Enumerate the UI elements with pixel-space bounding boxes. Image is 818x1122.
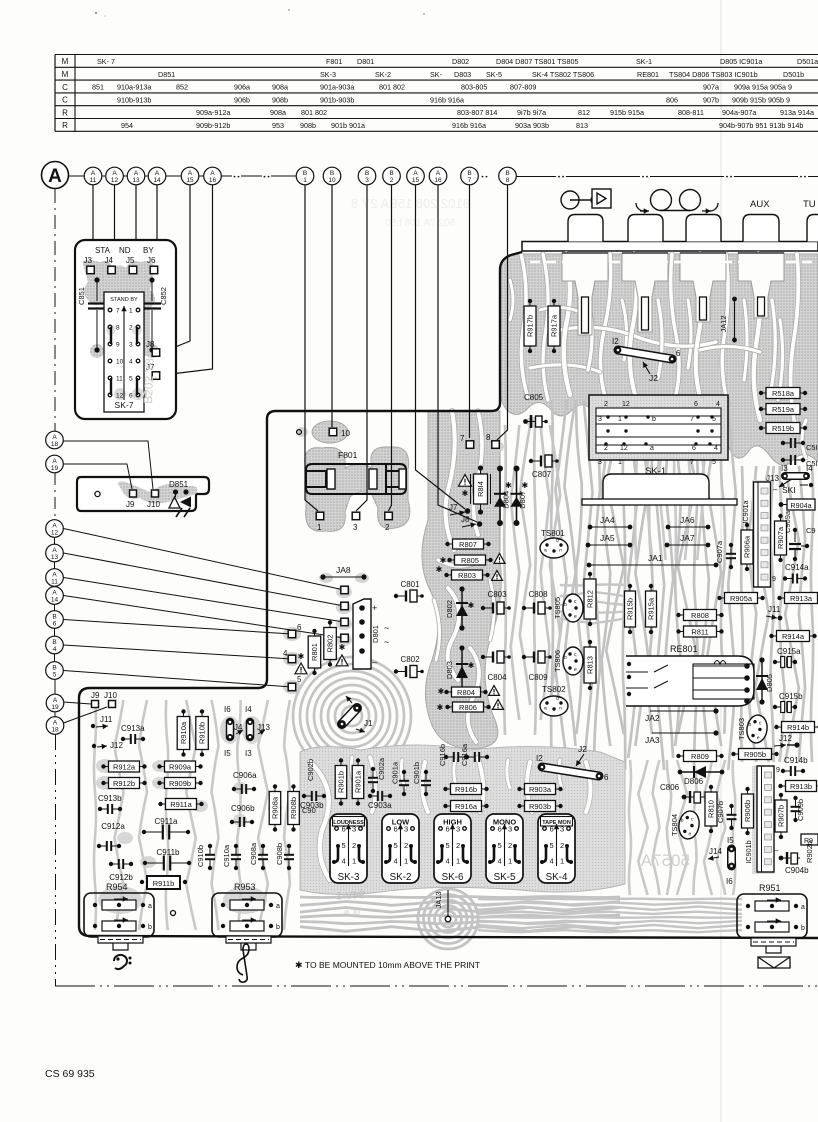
svg-text:5: 5 xyxy=(550,841,554,850)
svg-text:R903b: R903b xyxy=(529,802,551,811)
jumper J2 upper xyxy=(612,337,681,383)
key tab 4 xyxy=(743,215,779,242)
switch SK-1 xyxy=(582,395,737,505)
parts-location table xyxy=(55,55,818,132)
svg-text:SK-1: SK-1 xyxy=(636,57,652,66)
svg-text:J11: J11 xyxy=(100,715,113,724)
svg-text:19: 19 xyxy=(51,704,59,711)
svg-text:913a 914a: 913a 914a xyxy=(780,108,814,117)
capacitor C910a xyxy=(222,844,241,870)
node A14 wire xyxy=(46,587,344,638)
pad J4 arrow xyxy=(234,723,243,735)
svg-text:R901b: R901b xyxy=(337,771,346,793)
svg-text:C9: C9 xyxy=(806,526,816,535)
svg-text:A: A xyxy=(53,719,58,726)
pad J11 right xyxy=(766,605,782,620)
svg-text:14: 14 xyxy=(51,596,59,603)
capacitor C903a xyxy=(368,791,392,810)
svg-text:SK-3: SK-3 xyxy=(320,70,336,79)
diode D805 xyxy=(756,657,774,704)
svg-text:J7: J7 xyxy=(449,503,458,512)
index wires xyxy=(93,185,508,522)
svg-text:M: M xyxy=(62,57,69,66)
svg-text:C911b: C911b xyxy=(157,848,181,857)
diode D807 xyxy=(511,466,529,527)
svg-text:R808: R808 xyxy=(691,611,709,620)
net JA6 xyxy=(666,515,711,529)
svg-text:806: 806 xyxy=(666,95,678,104)
svg-text:D801: D801 xyxy=(371,625,380,643)
svg-text:R810: R810 xyxy=(707,800,716,818)
resistor R806 xyxy=(437,700,504,713)
connector I4-I3 xyxy=(245,705,253,758)
pad hole F xyxy=(297,430,302,435)
svg-text:14: 14 xyxy=(153,177,161,184)
svg-text:18: 18 xyxy=(51,441,59,448)
connector finger xyxy=(562,253,608,335)
diode D804 xyxy=(494,466,512,527)
svg-text:B: B xyxy=(303,170,307,177)
svg-text:CS 69 935: CS 69 935 xyxy=(45,1068,95,1080)
svg-text:A: A xyxy=(210,170,215,177)
resistor R907a xyxy=(775,514,787,562)
svg-text:✱: ✱ xyxy=(295,960,303,970)
svg-text:R804: R804 xyxy=(457,688,475,697)
traces mid right xyxy=(504,400,813,770)
svg-text:R907b: R907b xyxy=(777,805,786,827)
svg-text:IC901a: IC901a xyxy=(741,500,750,523)
svg-text:9: 9 xyxy=(116,342,120,349)
svg-text:R813: R813 xyxy=(586,656,595,674)
svg-text:D501a: D501a xyxy=(797,57,818,66)
svg-text:909b-912b: 909b-912b xyxy=(196,121,230,130)
connector tab R954 xyxy=(98,936,143,950)
copper pour top right xyxy=(500,254,818,465)
svg-text:4: 4 xyxy=(283,649,288,658)
svg-text:C808: C808 xyxy=(528,590,548,599)
svg-text:5: 5 xyxy=(53,671,57,678)
svg-text:4: 4 xyxy=(342,857,346,866)
svg-text:✱: ✱ xyxy=(436,565,443,574)
svg-text:C903a: C903a xyxy=(368,801,392,810)
svg-text:D802: D802 xyxy=(452,57,469,66)
svg-text:6: 6 xyxy=(676,349,681,358)
svg-text:J2: J2 xyxy=(578,744,587,754)
svg-text:C902b: C902b xyxy=(306,759,315,781)
svg-text:7: 7 xyxy=(690,459,694,466)
switch SK-7 block xyxy=(75,240,176,419)
svg-text:D804: D804 xyxy=(502,491,511,509)
capacitor C906b xyxy=(230,804,255,827)
svg-text:J4: J4 xyxy=(105,256,114,265)
svg-text:C807: C807 xyxy=(532,470,552,479)
svg-text:R953: R953 xyxy=(234,882,256,892)
svg-text:JA1: JA1 xyxy=(648,553,663,563)
svg-text:D805 IC901a: D805 IC901a xyxy=(720,57,762,66)
node B1 xyxy=(296,167,314,185)
svg-text:TS801: TS801 xyxy=(541,529,565,538)
svg-text:J8: J8 xyxy=(461,515,470,524)
svg-text:J5: J5 xyxy=(126,256,135,265)
net JA1 xyxy=(587,553,719,567)
net JA2 xyxy=(645,708,719,723)
resistor R90x cut xyxy=(801,834,818,845)
svg-text:5: 5 xyxy=(712,459,716,466)
svg-text:C902a: C902a xyxy=(377,757,386,780)
capacitor C809 xyxy=(522,651,552,682)
capacitor C915a xyxy=(773,647,801,668)
resistor R810 xyxy=(705,785,717,833)
svg-text:I2: I2 xyxy=(536,754,543,763)
svg-text:903a 903b: 903a 903b xyxy=(515,121,549,130)
node A14 xyxy=(148,167,166,185)
svg-text:5: 5 xyxy=(498,841,502,850)
svg-text:4: 4 xyxy=(550,857,554,866)
capacitor C909a xyxy=(783,510,816,561)
board outline xyxy=(79,252,818,938)
resistor R901a xyxy=(352,758,364,805)
svg-text:J3: J3 xyxy=(84,256,93,265)
resistor R915b xyxy=(625,584,636,634)
rectifier D801 xyxy=(353,599,389,669)
svg-text:3: 3 xyxy=(404,825,408,834)
svg-text:3: 3 xyxy=(352,825,356,834)
resistor R914a xyxy=(769,631,816,642)
svg-text:801 802: 801 802 xyxy=(301,108,327,117)
capacitor C805 xyxy=(523,393,548,428)
svg-text:B: B xyxy=(467,170,471,177)
svg-text:J1: J1 xyxy=(364,719,373,728)
svg-text:✱: ✱ xyxy=(437,703,444,712)
svg-text:C804: C804 xyxy=(487,673,507,682)
node B6 wire xyxy=(46,611,292,634)
svg-text:A: A xyxy=(134,170,139,177)
svg-text:4: 4 xyxy=(714,445,718,452)
svg-text:R811: R811 xyxy=(691,627,708,636)
svg-text:R906a: R906a xyxy=(743,535,752,558)
svg-text:R518a: R518a xyxy=(772,389,795,398)
resistor R801 xyxy=(308,629,321,675)
svg-text:TO BE MOUNTED 10mm ABOVE: TO BE MOUNTED 10mm ABOVE THE PRINT xyxy=(305,960,480,970)
connector tab R953 xyxy=(226,936,271,950)
capacitor C518b xyxy=(781,455,818,468)
net JA12 xyxy=(719,297,737,343)
capacitor C802 xyxy=(394,655,424,678)
resistor R909b xyxy=(157,778,202,789)
svg-text:5057A: 5057A xyxy=(640,851,690,870)
svg-text:1: 1 xyxy=(303,177,307,184)
svg-text:R805: R805 xyxy=(461,556,479,565)
svg-text:+: + xyxy=(372,603,377,613)
svg-text:M: M xyxy=(62,70,69,79)
svg-text:C915a: C915a xyxy=(777,647,801,656)
svg-text:5: 5 xyxy=(446,841,450,850)
svg-text:7: 7 xyxy=(468,177,472,184)
svg-text:✱: ✱ xyxy=(298,652,305,661)
connector finger xyxy=(738,253,784,318)
svg-text:5: 5 xyxy=(394,841,398,850)
svg-text:RE801: RE801 xyxy=(670,644,698,654)
resistor R905a xyxy=(717,593,764,604)
svg-text:R915b: R915b xyxy=(626,598,635,620)
capacitor C911b xyxy=(143,848,191,871)
copper pour centre xyxy=(422,411,501,748)
svg-text:I5: I5 xyxy=(727,836,734,845)
svg-text:JA13: JA13 xyxy=(434,891,443,908)
svg-text:JA4: JA4 xyxy=(600,515,615,525)
connector finger xyxy=(622,253,668,332)
svg-text:19: 19 xyxy=(51,465,59,472)
svg-text:910a-913a: 910a-913a xyxy=(117,83,151,92)
svg-text:J11: J11 xyxy=(768,605,781,614)
svg-text:1: 1 xyxy=(404,857,408,866)
svg-text:803-807 814: 803-807 814 xyxy=(457,108,497,117)
svg-text:D851: D851 xyxy=(158,70,175,79)
svg-text:1: 1 xyxy=(352,857,356,866)
svg-text:R803: R803 xyxy=(458,571,476,580)
svg-text:A: A xyxy=(48,166,62,187)
svg-text:813: 813 xyxy=(576,121,588,130)
resistor R911b xyxy=(140,876,187,889)
svg-text:A: A xyxy=(52,434,57,441)
resistor R910a xyxy=(177,709,190,756)
resistor R914b xyxy=(774,722,818,733)
svg-text:b: b xyxy=(564,602,567,608)
switch SK-6 xyxy=(434,814,471,883)
svg-text:6: 6 xyxy=(498,825,502,834)
svg-text:a: a xyxy=(650,445,654,452)
svg-text:D501b: D501b xyxy=(783,70,804,79)
key tab 2 xyxy=(628,215,663,242)
svg-text:–: – xyxy=(774,846,779,855)
svg-text:R910b: R910b xyxy=(198,722,207,744)
svg-text:3: 3 xyxy=(560,825,564,834)
pad J5 xyxy=(126,256,137,274)
svg-text:13: 13 xyxy=(51,554,59,561)
svg-text:A: A xyxy=(413,170,418,177)
svg-text:12: 12 xyxy=(51,529,59,536)
capacitor C851 xyxy=(77,277,106,352)
svg-text:12: 12 xyxy=(622,401,630,408)
net JA3 xyxy=(645,730,719,745)
node B3 xyxy=(358,167,376,185)
svg-text:R906b: R906b xyxy=(743,800,752,822)
svg-text:502 7A 108 b50: 502 7A 108 b50 xyxy=(384,218,455,229)
svg-text:J14: J14 xyxy=(709,847,722,856)
svg-text:6: 6 xyxy=(342,825,346,834)
svg-text:A: A xyxy=(91,170,96,177)
paper specks xyxy=(95,12,97,14)
svg-text:STA: STA xyxy=(95,246,111,255)
svg-text:C913b: C913b xyxy=(98,794,122,803)
svg-text:R913b: R913b xyxy=(790,782,812,791)
treble clef xyxy=(237,944,249,982)
svg-text:–: – xyxy=(773,485,778,494)
svg-text:6: 6 xyxy=(694,401,698,408)
svg-text:C805: C805 xyxy=(524,393,544,402)
node A16 xyxy=(429,167,447,185)
net JA7 xyxy=(665,533,711,547)
speaker icon xyxy=(758,957,790,968)
dashed clearance line xyxy=(530,261,818,264)
svg-text:9i7b 9i7a: 9i7b 9i7a xyxy=(517,108,546,117)
pad J9 xyxy=(126,490,137,509)
svg-text:a: a xyxy=(276,903,280,910)
svg-text:C907b: C907b xyxy=(716,801,725,823)
svg-text:10: 10 xyxy=(116,359,124,366)
svg-text:R812: R812 xyxy=(586,590,595,608)
capacitor C518a xyxy=(781,438,818,452)
capacitor C807 xyxy=(529,455,559,479)
pad 1 xyxy=(316,512,324,532)
svg-text:SK-4 TS802 TS806: SK-4 TS802 TS806 xyxy=(532,70,594,79)
svg-text:✱: ✱ xyxy=(468,661,475,670)
svg-text:JA12: JA12 xyxy=(719,315,728,332)
resistor R804 xyxy=(438,686,500,698)
svg-text:6: 6 xyxy=(129,393,133,400)
svg-text:3: 3 xyxy=(508,825,512,834)
svg-text:1: 1 xyxy=(317,523,322,532)
svg-text:A: A xyxy=(188,170,193,177)
pads 13 14 SK1 xyxy=(766,464,813,495)
jumper J2 lower xyxy=(536,744,609,782)
transistor TS802 xyxy=(540,685,568,716)
svg-text:R954: R954 xyxy=(106,882,128,892)
svg-text:R: R xyxy=(62,121,68,130)
svg-text:A: A xyxy=(52,571,57,578)
node A11 xyxy=(84,167,102,185)
svg-text:2: 2 xyxy=(560,841,564,850)
node B8 xyxy=(499,167,517,185)
svg-text:808-811: 808-811 xyxy=(678,108,704,117)
net JA5 xyxy=(586,533,633,547)
svg-text:910b-913b: 910b-913b xyxy=(117,95,151,104)
pad 4 xyxy=(283,649,307,674)
svg-text:C912a: C912a xyxy=(101,822,125,831)
svg-text:D807: D807 xyxy=(518,491,527,509)
svg-text:4: 4 xyxy=(129,359,133,366)
svg-text:R807: R807 xyxy=(459,540,477,549)
crop line bottom xyxy=(55,985,818,987)
svg-text:7: 7 xyxy=(460,434,465,443)
edge-connector index circles xyxy=(69,175,818,178)
svg-text:a: a xyxy=(801,904,805,911)
edge bar xyxy=(522,242,818,252)
resistor R903a xyxy=(517,784,562,795)
svg-text:J2: J2 xyxy=(649,373,658,383)
svg-text:2: 2 xyxy=(604,445,608,452)
node A12 xyxy=(106,167,124,185)
svg-text:3: 3 xyxy=(365,177,369,184)
node B4 wire xyxy=(46,636,292,659)
svg-text:e: e xyxy=(574,667,577,673)
resistor R814 xyxy=(471,465,491,514)
svg-text:SK-2: SK-2 xyxy=(390,872,412,883)
key tab 1 xyxy=(568,215,603,242)
capacitor C852 xyxy=(143,277,168,352)
svg-text:C903b: C903b xyxy=(300,801,324,810)
svg-text:10: 10 xyxy=(328,177,336,184)
svg-text:2: 2 xyxy=(129,325,133,332)
svg-text:SK-2: SK-2 xyxy=(375,70,391,79)
svg-text:I2: I2 xyxy=(612,337,619,346)
svg-text:5: 5 xyxy=(342,841,346,850)
svg-text:R915a: R915a xyxy=(647,597,656,620)
svg-text:C913a: C913a xyxy=(121,724,145,733)
node B7 xyxy=(461,167,479,185)
svg-text:✱: ✱ xyxy=(339,643,346,652)
note mounting xyxy=(295,960,480,970)
svg-text:3: 3 xyxy=(598,459,602,466)
crop line left xyxy=(54,189,57,986)
chain segments xyxy=(54,537,57,716)
svg-text:D804 D807 TS801 TS805: D804 D807 TS801 TS805 xyxy=(496,57,578,66)
copper F801 xyxy=(305,447,410,532)
transistor TS803 xyxy=(737,714,769,745)
svg-text:5: 5 xyxy=(297,675,302,684)
svg-text:B: B xyxy=(330,170,334,177)
svg-text:SK-: SK- xyxy=(430,70,443,79)
pad J6 xyxy=(147,256,158,274)
indicator board xyxy=(77,477,209,511)
pad J10 xyxy=(147,490,160,509)
svg-text:D806: D806 xyxy=(684,777,704,786)
svg-text:TS804: TS804 xyxy=(670,814,679,836)
svg-text:901b-903b: 901b-903b xyxy=(320,95,354,104)
capacitor C904b xyxy=(774,846,809,875)
svg-text:R905a: R905a xyxy=(730,594,753,603)
resistor R903b xyxy=(517,801,562,812)
pad J14 xyxy=(708,847,722,861)
switch SK-4 xyxy=(538,814,575,883)
svg-text:ND: ND xyxy=(119,246,131,255)
svg-text:I6: I6 xyxy=(224,705,231,714)
svg-text:2: 2 xyxy=(352,841,356,850)
svg-text:C914b: C914b xyxy=(784,756,808,765)
svg-text:R911b: R911b xyxy=(153,879,175,888)
svg-text:A: A xyxy=(155,170,160,177)
node A16 xyxy=(204,167,222,185)
svg-text:C908b: C908b xyxy=(275,843,284,865)
svg-text:909a 915a 905a 9: 909a 915a 905a 9 xyxy=(734,83,792,92)
resistor R803 xyxy=(436,565,503,580)
svg-text:J10: J10 xyxy=(147,500,160,509)
traces bottom right xyxy=(478,408,742,932)
svg-text:b: b xyxy=(801,925,805,932)
svg-text:R908b: R908b xyxy=(289,797,298,819)
svg-text:11: 11 xyxy=(51,578,58,585)
resistor R917b xyxy=(524,299,536,353)
phono icon xyxy=(561,189,611,209)
node A18 wire xyxy=(46,431,153,489)
svg-text:901b 901a: 901b 901a xyxy=(331,121,365,130)
svg-text:909b 915b 905b 9: 909b 915b 905b 9 xyxy=(732,95,790,104)
svg-text:C5I: C5I xyxy=(806,443,818,452)
resistor R908b xyxy=(288,784,300,831)
svg-text:UL ®: UL ® xyxy=(343,909,360,917)
svg-text:SK-6: SK-6 xyxy=(442,872,464,883)
capacitor C907a xyxy=(715,540,736,569)
svg-text:R917a: R917a xyxy=(550,314,559,337)
svg-text:R806: R806 xyxy=(459,703,477,712)
resistor R909a xyxy=(157,761,202,772)
svg-text:R916a: R916a xyxy=(455,802,478,811)
capacitor C907b xyxy=(716,801,737,830)
resistor R916a xyxy=(443,801,488,812)
svg-text:JA3: JA3 xyxy=(645,735,660,745)
svg-text:908a: 908a xyxy=(270,108,286,117)
svg-text:8: 8 xyxy=(506,177,510,184)
